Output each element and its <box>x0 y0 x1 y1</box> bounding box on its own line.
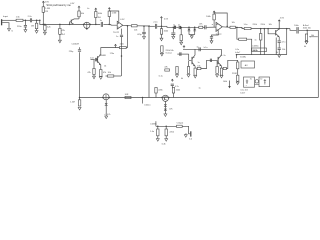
svg-text:4n 4k: 4n 4k <box>253 50 258 52</box>
resistor R4 2.2k shunt <box>44 23 46 26</box>
svg-text:Output: Output <box>177 122 184 125</box>
svg-text:SCH pod bass by me: SCH pod bass by me <box>46 3 71 7</box>
resistor R6 10k <box>78 9 80 11</box>
diode D4 below Q6 <box>164 101 166 104</box>
ground output jack <box>185 133 188 136</box>
svg-text:470p: 470p <box>137 34 142 36</box>
resistor R5 47k shunt <box>59 24 61 28</box>
svg-text:1u: 1u <box>116 36 118 38</box>
svg-text:b.1u: b.1u <box>159 76 163 78</box>
resistor R8 10k series <box>131 25 137 27</box>
wire chain segment 5 <box>238 27 244 28</box>
resistor R26 110k on rail <box>120 47 127 49</box>
ground R22 <box>165 139 168 142</box>
capacitor C3 1u series <box>100 22 102 27</box>
resistor R36b lower <box>237 75 239 81</box>
svg-text:47k: 47k <box>169 109 172 111</box>
ground C5 <box>143 37 146 40</box>
ground R36 <box>237 80 239 83</box>
node J junction <box>161 26 163 28</box>
capacitor C10 shunt <box>210 36 213 38</box>
transistor Q4 <box>217 57 219 64</box>
ground R5 <box>58 40 61 43</box>
battery box 1 <box>244 77 255 87</box>
wire output row <box>156 125 177 127</box>
svg-text:100k: 100k <box>98 13 102 15</box>
node C junction <box>44 24 46 26</box>
svg-text:10k: 10k <box>134 30 138 32</box>
resistor R36 right column <box>237 62 239 69</box>
wire Q5 base <box>268 29 275 34</box>
svg-text:10k: 10k <box>81 13 85 15</box>
capacitor C7 shunt <box>173 27 175 29</box>
svg-text:b.068u: b.068u <box>240 56 246 58</box>
svg-text:170u: 170u <box>110 53 114 55</box>
svg-text:Octave: Octave <box>166 52 173 55</box>
potentiometer VR1 volume <box>306 30 308 34</box>
svg-text:1.0n: 1.0n <box>90 57 94 59</box>
battery box 2 <box>259 77 270 87</box>
wire top chain segment 1 <box>2 19 16 21</box>
svg-text:0.1u 2n2: 0.1u 2n2 <box>241 90 248 92</box>
svg-text:10k: 10k <box>232 22 235 24</box>
svg-text:b.4: b.4 <box>189 139 193 141</box>
resistor R35 bias Q4 <box>216 61 218 67</box>
wire chain to right edge <box>299 30 318 97</box>
transistor Q6 circle on bus <box>161 97 163 99</box>
node B junction <box>36 20 38 22</box>
node K junction <box>180 27 182 29</box>
node B2 junction <box>39 20 41 22</box>
svg-text:1u: 1u <box>197 46 199 48</box>
svg-text:- +: - + <box>245 85 248 87</box>
svg-text:3v: 3v <box>260 79 262 81</box>
svg-text:10k: 10k <box>108 72 111 74</box>
svg-text:4.5V: 4.5V <box>280 18 285 20</box>
capacitor C16 on rail2 <box>179 52 181 56</box>
wire interstage2 up <box>226 60 237 68</box>
svg-text:A.F: A.F <box>245 64 249 67</box>
svg-text:220n: 220n <box>17 26 22 28</box>
capacitor C13 base <box>94 58 96 62</box>
resistor R33 interstage <box>197 67 201 69</box>
svg-text:4v: 4v <box>87 8 89 10</box>
svg-text:3v: 3v <box>250 79 252 81</box>
resistor R3 1.5M <box>42 4 44 7</box>
svg-text:220k: 220k <box>261 24 265 26</box>
wire Q3 collector <box>194 49 196 55</box>
svg-text:TL072: TL072 <box>113 32 120 34</box>
svg-text:1.5M: 1.5M <box>70 102 75 104</box>
wire rail2 <box>177 53 188 55</box>
svg-text:110k: 110k <box>120 43 124 45</box>
resistor R9 100k shunt <box>161 26 163 28</box>
svg-text:4.5V: 4.5V <box>120 19 125 21</box>
wire rail2 down to base Q3 <box>189 54 192 60</box>
ground input jack <box>8 29 11 32</box>
arrow down to bus <box>229 81 231 87</box>
resistor R24 base bias <box>93 60 95 69</box>
svg-text:1.5k: 1.5k <box>16 16 21 18</box>
capacitor C19 4.7u <box>278 40 281 42</box>
wire extra vertical 264 <box>264 28 266 30</box>
resistor R30 <box>165 69 170 71</box>
ground R24 <box>93 76 96 79</box>
supply R7 feedback <box>108 8 110 9</box>
svg-text:b.1u: b.1u <box>204 47 208 49</box>
ground R29 <box>160 53 163 56</box>
wire feedback U1 <box>109 11 119 22</box>
ground C10 <box>210 41 213 44</box>
wire bus feed vertical <box>79 52 81 97</box>
svg-text:R3: R3 <box>45 11 49 13</box>
capacitor C5 470p shunt <box>143 26 145 32</box>
ground R32 <box>187 75 190 78</box>
svg-text:10k: 10k <box>269 24 272 26</box>
svg-text:2.2k: 2.2k <box>47 27 52 29</box>
svg-text:1M: 1M <box>31 26 34 28</box>
supply R13 <box>213 11 215 12</box>
wire Q5 emitter chain <box>278 37 280 41</box>
capacitor C4 1u tail <box>120 34 123 36</box>
svg-text:10k: 10k <box>282 49 285 51</box>
wire to output jack <box>182 126 190 134</box>
node I junction bias <box>148 25 150 27</box>
transistor Q5 <box>275 30 277 35</box>
resistor R22 220k shunt <box>165 126 167 128</box>
wire U1 tail <box>121 29 123 35</box>
svg-text:4k: 4k <box>104 65 106 67</box>
resistor R38 interstage2 <box>223 67 226 69</box>
capacitor C9 series <box>204 25 206 29</box>
resistor R39 100k <box>95 10 97 12</box>
resistor R12 47k series <box>199 26 203 28</box>
capacitor C12 220p feed <box>79 47 81 49</box>
flat box <box>252 48 267 52</box>
svg-text:Input: Input <box>3 15 8 18</box>
wire filter to subrail <box>247 39 252 54</box>
node P junction stub <box>142 97 144 99</box>
wire bottom bus <box>80 97 319 99</box>
svg-text:0.022u: 0.022u <box>144 104 150 106</box>
ground D5 <box>164 111 166 114</box>
resistor R27 10k lower <box>114 75 121 77</box>
capacitor C15 <box>171 83 174 85</box>
ground R4 <box>43 32 46 35</box>
lamp LA1 on chain <box>83 24 85 26</box>
svg-text:4.7u: 4.7u <box>175 86 179 88</box>
node P1 junction <box>267 28 269 30</box>
svg-text:0.068u: 0.068u <box>150 124 156 126</box>
wire rail upper <box>183 48 221 50</box>
svg-text:2.2u: 2.2u <box>28 16 33 18</box>
resistor R29 left column <box>161 46 163 53</box>
ground R25 <box>99 77 102 80</box>
op-amp U1 <box>117 21 123 29</box>
output jack J2 <box>190 131 192 136</box>
svg-text:1u: 1u <box>199 87 201 89</box>
resistor R40 bias left <box>176 67 178 74</box>
svg-text:220R: 220R <box>232 73 237 75</box>
ground R9 <box>160 38 163 41</box>
svg-text:1n: 1n <box>255 40 257 42</box>
resistor R19 220k above bus <box>155 88 157 94</box>
svg-text:Cc. 2n: Cc. 2n <box>220 55 225 57</box>
svg-text:0.068u: 0.068u <box>252 45 258 47</box>
capacitor C17 on rail <box>198 47 200 51</box>
svg-text:+3 47k: +3 47k <box>104 114 110 116</box>
switch box <box>241 61 255 68</box>
resistor R31 emitter Q3 <box>194 66 196 68</box>
wire chain segment 4 <box>167 26 174 27</box>
ground R2 <box>35 31 38 34</box>
resistor R15 series <box>244 28 251 30</box>
supply 4.5V mid <box>160 17 162 18</box>
svg-text:220p: 220p <box>69 51 74 53</box>
ground Q5 emitter <box>278 55 281 58</box>
svg-text:4.5V: 4.5V <box>70 3 75 5</box>
svg-text:100k: 100k <box>164 31 169 33</box>
node D junction <box>59 24 61 26</box>
ground R35 <box>216 75 219 78</box>
wire frame right <box>286 28 288 30</box>
svg-text:2.2u: 2.2u <box>153 21 158 23</box>
svg-text:0.1u: 0.1u <box>235 49 239 51</box>
node A junction <box>25 20 27 22</box>
transistor Q2 <box>97 56 99 63</box>
ground VR1 <box>306 40 308 43</box>
ground D3 <box>105 106 107 117</box>
capacitor C6 2.2u series <box>154 24 156 29</box>
wire output feed <box>155 121 157 126</box>
input jack J1 <box>1 19 3 25</box>
svg-text:47k: 47k <box>164 67 167 69</box>
supply rail Q2 <box>114 44 116 45</box>
svg-text:220k: 220k <box>170 132 174 134</box>
lamp LA2 on bus <box>102 97 104 99</box>
LED between boxes <box>255 80 258 83</box>
wire tail down <box>121 48 123 76</box>
resistor R20 220k above bus 2 <box>172 88 174 94</box>
resistor R17 220k shunt <box>260 28 262 30</box>
wire U1 output to rail below <box>127 26 129 48</box>
resistor R13 100k feedback <box>213 13 215 14</box>
resistor R34 emitter Q4 <box>220 66 222 68</box>
svg-text:2k2: 2k2 <box>62 34 66 36</box>
wire subrail <box>237 54 287 56</box>
svg-text:220k: 220k <box>253 24 257 26</box>
svg-text:A.Fad: A.Fad <box>303 24 308 27</box>
svg-text:220k: 220k <box>158 90 162 92</box>
transistor Q1 buffer <box>69 24 71 26</box>
node F junction <box>108 24 110 26</box>
ground R21 <box>156 139 159 142</box>
capacitor C1 220n <box>24 20 26 25</box>
svg-text:b.4n7: b.4n7 <box>235 52 241 54</box>
svg-text:b.4n7: b.4n7 <box>241 92 246 94</box>
svg-text:1k5: 1k5 <box>98 17 102 19</box>
resistor R7 1.5M <box>108 10 110 11</box>
node H junction <box>143 25 145 27</box>
capacitor C18 base Q4 <box>209 59 211 62</box>
svg-text:100k 10k: 100k 10k <box>303 28 311 30</box>
svg-text:1u: 1u <box>198 62 200 64</box>
node subrail junction <box>236 54 238 56</box>
node G junction output U1 <box>127 25 129 27</box>
svg-text:100n: 100n <box>294 25 299 27</box>
svg-text:220k 10k: 220k 10k <box>166 50 174 52</box>
ground diodes <box>190 36 193 39</box>
diode D2 clipping <box>194 27 196 29</box>
wire feedback U2 <box>214 13 227 26</box>
resistor R18 10R on bus <box>125 96 131 98</box>
wire Q4 collector <box>220 49 222 55</box>
svg-text:100k: 100k <box>206 16 211 18</box>
transistor Q3 <box>191 57 193 64</box>
resistor R10 100k shunt <box>180 27 182 34</box>
capacitor C2 2.2u series <box>29 18 31 22</box>
diode D1 clipping <box>188 27 190 29</box>
node P2 pot junction <box>306 30 308 32</box>
svg-text:100k: 100k <box>223 81 227 83</box>
wire bias line to bus <box>148 26 150 97</box>
wire chain step1 <box>40 20 101 24</box>
svg-text:4.7u: 4.7u <box>282 41 286 43</box>
resistor R14 10k series <box>230 26 236 28</box>
capacitor C11 100n series <box>296 27 298 33</box>
capacitor C20 <box>278 47 281 49</box>
diode D3 below lamp <box>105 100 107 104</box>
resistor R32 bias Q3 <box>188 61 190 67</box>
wire chain segment 2 <box>103 23 111 25</box>
wire Q2 base <box>91 59 95 61</box>
svg-text:10R: 10R <box>125 94 129 96</box>
wire U2 tail <box>212 30 219 36</box>
svg-text:1.0n: 1.0n <box>150 131 154 133</box>
wire diodes common <box>188 31 190 35</box>
wiper VR1 <box>309 36 318 38</box>
supply small C15 <box>171 79 173 80</box>
wire Q2 collector rail <box>101 48 120 55</box>
resistor R37 below bus <box>79 97 81 99</box>
svg-text:47k: 47k <box>62 30 66 32</box>
svg-text:10k: 10k <box>197 65 200 67</box>
resistor R1 1.5k <box>16 19 23 21</box>
svg-text:CD4049: CD4049 <box>72 43 80 45</box>
supply 4.5V top-left <box>42 1 44 2</box>
svg-text:220k: 220k <box>176 90 180 92</box>
svg-text:10k: 10k <box>311 35 314 37</box>
svg-text:4.5V: 4.5V <box>164 18 169 20</box>
svg-text:1.0n: 1.0n <box>244 24 248 26</box>
svg-text:4k: 4k <box>304 46 306 48</box>
svg-text:47k: 47k <box>103 72 106 74</box>
node N junction <box>236 27 238 29</box>
node N2 junction output U2 <box>226 26 228 28</box>
svg-text:4k: 4k <box>181 78 183 80</box>
resistor R23 series <box>177 125 183 127</box>
resistor R21 shunt <box>157 126 159 128</box>
ground R40 <box>176 75 179 78</box>
wire chain segment 3 <box>123 24 132 27</box>
resistor R25 emitter <box>100 65 102 70</box>
resistor R2 1M shunt <box>36 20 38 23</box>
ground R37 <box>78 107 81 110</box>
ground C7 <box>172 36 175 39</box>
ground C1 <box>24 30 27 33</box>
svg-text:In: In <box>11 31 13 33</box>
resistor R16 filter <box>239 38 247 40</box>
op-amp U2 <box>216 22 222 31</box>
diode D5 second <box>164 109 167 111</box>
svg-text:b.4k: b.4k <box>162 143 166 145</box>
wire branch to filter <box>237 27 239 39</box>
supply rail upper <box>183 46 185 47</box>
svg-text:47k: 47k <box>199 23 202 25</box>
svg-text:1.5M: 1.5M <box>112 13 117 15</box>
ground Q4 emitter <box>220 75 223 78</box>
svg-text:47k: 47k <box>87 72 90 74</box>
wire interstage up <box>201 60 218 68</box>
ground R10 <box>180 42 183 45</box>
ground Q3 emitter <box>194 75 197 78</box>
wire Q1 collector <box>74 18 79 20</box>
wire frame left <box>275 38 277 55</box>
